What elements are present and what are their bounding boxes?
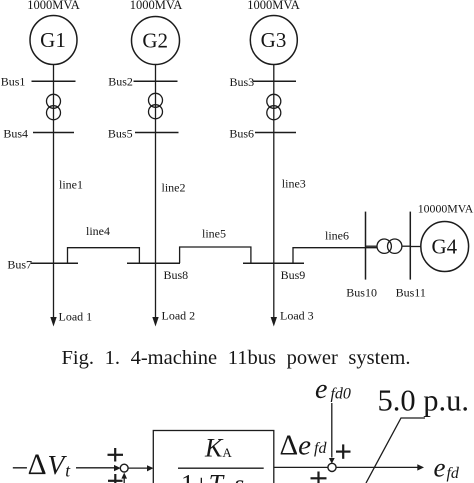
svg-text:Bus6: Bus6 (229, 127, 254, 141)
svg-text:line5: line5 (202, 227, 226, 241)
svg-text:1000MVA: 1000MVA (247, 0, 300, 12)
svg-text:G2: G2 (142, 29, 168, 53)
svg-text:Load 3: Load 3 (280, 309, 314, 323)
svg-text:efd0: efd0 (315, 374, 351, 405)
svg-text:1+TAs: 1+TAs (181, 470, 244, 483)
svg-text:5.0 p.u.: 5.0 p.u. (378, 384, 470, 418)
svg-text:Bus5: Bus5 (108, 127, 133, 141)
svg-text:Load 1: Load 1 (59, 310, 93, 324)
svg-text:Δefd: Δefd (280, 430, 328, 462)
svg-text:Fig. 1. 4-machine 11bus power: Fig. 1. 4-machine 11bus power system. (62, 347, 411, 369)
svg-text:Bus2: Bus2 (108, 75, 133, 89)
svg-text:Bus4: Bus4 (3, 126, 28, 140)
svg-text:efd: efd (434, 453, 460, 483)
svg-text:Bus9: Bus9 (281, 268, 306, 282)
svg-text:1000MVA: 1000MVA (27, 0, 80, 12)
svg-text:Bus1: Bus1 (1, 75, 26, 89)
svg-text:G1: G1 (40, 28, 66, 52)
svg-text:G3: G3 (261, 28, 287, 52)
svg-text:10000MVA: 10000MVA (418, 202, 474, 216)
svg-text:G4: G4 (431, 235, 457, 259)
svg-text:Bus11: Bus11 (396, 286, 426, 300)
svg-text:line1: line1 (59, 178, 83, 192)
svg-text:1000MVA: 1000MVA (130, 0, 183, 12)
svg-text:line2: line2 (162, 181, 186, 195)
svg-text:Bus7: Bus7 (7, 258, 32, 272)
svg-text:KA: KA (204, 434, 232, 463)
svg-text:Load 2: Load 2 (162, 309, 196, 323)
svg-text:line3: line3 (282, 177, 306, 191)
svg-text:line6: line6 (325, 229, 349, 243)
svg-text:Bus8: Bus8 (164, 268, 189, 282)
svg-text:–ΔVt: –ΔVt (12, 449, 71, 481)
svg-text:Bus10: Bus10 (346, 286, 377, 300)
svg-text:Bus3: Bus3 (230, 75, 255, 89)
svg-text:line4: line4 (86, 224, 110, 238)
